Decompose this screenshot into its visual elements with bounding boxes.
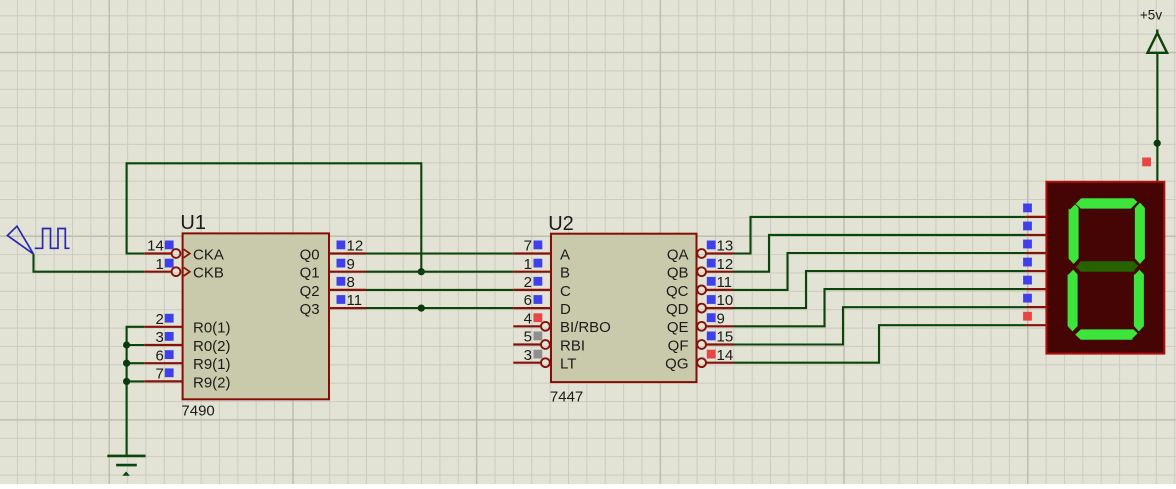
svg-text:U2: U2 [548,213,574,235]
state square U2 pin 15 state [707,332,716,341]
svg-text:QD: QD [666,301,689,318]
state square U1 pin 14 state [165,241,174,250]
state square display pin 7 state [1023,312,1032,321]
svg-text:9: 9 [347,256,355,273]
pin stub display segment pin 1 [1026,216,1047,218]
state square U2 pin 4 state [534,313,543,322]
inversion bubble U2 QD [697,304,706,313]
segment G middle (off) [1075,261,1139,271]
pin stub display segment pin 3 [1026,252,1047,254]
segment gap notches [1066,198,1146,340]
pin stub display segment pin 7 [1026,324,1047,326]
pin stub U1 pin 12 Q0 [329,252,366,254]
inversion bubble U2 QE [697,322,706,331]
wire U2 QF to display [734,307,1026,344]
clock generator symbol [7,226,69,254]
wire U2 QE to display [734,289,1026,326]
state square display pin 5 state [1023,276,1032,285]
svg-text:9: 9 [717,310,725,327]
svg-text:LT: LT [560,356,576,373]
junction R0(2) tee [123,341,130,348]
state square display pin 2 state [1023,222,1032,231]
inversion bubble U2 QG [697,358,706,367]
state square U2 pin 7 state [534,241,543,250]
ground symbol [107,456,145,475]
state square U2 pin 5 state [534,332,543,341]
wire U2 QC to display [734,253,1026,290]
state square U1 pin 11 state [337,295,346,304]
pin stub display segment pin 4 [1026,270,1047,272]
state square display common state [1142,158,1151,167]
inversion bubble U2 QF [697,340,706,349]
pin stub U1 pin 14 CKA [144,252,171,254]
svg-text:Q2: Q2 [300,283,320,300]
pin stub U2 pin 15 QF [706,343,733,345]
svg-text:15: 15 [717,329,734,346]
svg-text:7: 7 [155,366,163,383]
segment E bottom-left (on) [1068,269,1078,332]
svg-text:14: 14 [147,238,164,255]
wire +5v rail to display common [1156,53,1158,182]
pin stub U1 pin 11 Q3 [329,307,366,309]
state square U2 pin 1 state [534,259,543,268]
pin stub U1 pin 7 R9(2) [144,380,182,382]
IC U1 7490 body [183,233,329,399]
state square U1 pin 8 state [337,277,346,286]
wire U2 QD to display [734,271,1026,308]
svg-text:2: 2 [524,274,532,291]
svg-text:7447: 7447 [550,389,583,406]
segment B top-right (on) [1135,203,1145,265]
svg-text:CKB: CKB [193,265,224,282]
wire U1 Q0 to U2 A [366,252,513,254]
clock marker U1 CKA [184,249,190,258]
inversion bubble U1 CKA [172,249,181,258]
state square U1 pin 9 state [337,259,346,268]
pin stub U2 pin 4 BI/RBO [513,325,541,327]
segment D bottom (on) [1075,329,1139,339]
svg-text:U1: U1 [180,212,206,234]
state square U2 pin 6 state [534,295,543,304]
svg-text:12: 12 [717,256,734,273]
7-segment display DS body [1046,182,1164,354]
state square U1 pin 1 state [165,259,174,268]
pin stub U1 pin 3 R0(2) [144,344,182,346]
inversion bubble U2 QB [697,267,706,276]
junction dot on Q3 net [418,305,425,312]
svg-text:7490: 7490 [181,402,214,419]
state square U1 pin 3 state [165,332,174,341]
state square display pin 1 state [1023,204,1032,213]
wire U1 Q2 to U2 C [366,289,513,291]
svg-text:4: 4 [524,310,532,327]
state square U2 pin 9 state [707,313,716,322]
svg-text:B: B [560,265,570,282]
svg-text:6: 6 [155,347,163,364]
svg-text:QC: QC [666,283,689,300]
wire reset harness vertical [127,327,145,456]
state square U2 pin 12 state [707,259,716,268]
pin stub U1 pin 8 Q2 [329,289,366,291]
svg-text:3: 3 [524,347,532,364]
svg-text:Q0: Q0 [300,246,320,263]
inversion bubble U2 QC [697,286,706,295]
svg-text:11: 11 [347,292,363,309]
pin stub U2 pin 14 QG [706,362,733,364]
svg-text:13: 13 [717,238,734,255]
junction feedback joins Q1 net [418,268,425,275]
svg-text:8: 8 [347,274,355,291]
pin stub U2 pin 13 QA [706,252,733,254]
svg-text:QF: QF [668,337,689,354]
state square U1 pin 6 state [165,350,174,359]
junction R9(2) tee [123,378,130,385]
svg-text:12: 12 [347,238,364,255]
svg-text:1: 1 [524,256,532,273]
svg-text:QB: QB [667,265,689,282]
segment F top-left (on) [1069,203,1079,265]
svg-text:3: 3 [155,329,163,346]
wire U2 QB to display [734,235,1026,272]
svg-text:14: 14 [717,347,734,364]
pin stub U2 pin 9 QE [706,325,733,327]
svg-text:R9(2): R9(2) [193,374,231,391]
inversion bubble U1 CKB [172,267,181,276]
state square U1 pin 12 state [337,241,346,250]
svg-text:CKA: CKA [193,246,224,263]
pin stub U1 pin 1 CKB [144,271,171,273]
wire to R0(2) [127,344,145,346]
svg-text:7: 7 [524,238,532,255]
state square U1 pin 7 state [165,368,174,377]
inversion bubble U2 QA [697,249,706,258]
pin stub U2 pin 1 B [513,271,551,273]
svg-text:Q3: Q3 [300,301,320,318]
pin stub display segment pin 6 [1026,306,1047,308]
svg-text:QA: QA [667,246,689,263]
pin stub U1 pin 9 Q1 [329,271,366,273]
clock marker U1 CKB [184,267,190,276]
pin stub U2 pin 12 QB [706,271,733,273]
inversion bubble U2 BI/RBO [541,322,550,331]
pin stub display segment pin 5 [1026,288,1047,290]
power symbol +5v [1148,33,1168,53]
state square U2 pin 14 state [707,350,716,359]
state square U2 pin 10 state [707,295,716,304]
IC U2 7447 body [551,234,697,382]
segment C bottom-right (on) [1134,269,1144,332]
wire to R9(2) [127,380,145,382]
svg-text:D: D [560,301,571,318]
pin stub display segment pin 2 [1026,234,1047,236]
state square U1 pin 2 state [165,314,174,323]
state square display pin 6 state [1023,294,1032,303]
state square U2 pin 2 state [534,277,543,286]
svg-text:6: 6 [524,292,532,309]
pin stub U2 pin 10 QD [706,307,733,309]
wire Q1 feedback to CKA [127,163,422,271]
svg-text:2: 2 [155,311,163,328]
wire U1 Q3 to U2 D [366,307,513,309]
pin stub U2 pin 5 RBI [513,343,541,345]
svg-text:BI/RBO: BI/RBO [560,319,611,336]
pin stub U2 pin 3 LT [513,362,541,364]
state square U2 pin 13 state [707,241,716,250]
svg-text:5: 5 [524,329,532,346]
pin stub U2 pin 11 QC [706,289,733,291]
pin stub U1 pin 2 R0(1) [144,326,182,328]
svg-text:Q1: Q1 [300,265,320,282]
segment A top (on) [1075,198,1139,208]
state square display pin 4 state [1023,258,1032,267]
wire U1 Q1 to U2 B [366,271,513,273]
junction on +5v rail [1154,140,1161,147]
wire clock to U1 CKB [34,254,145,272]
wire U2 QG to display [734,325,1026,363]
wire to R9(1) [127,362,145,364]
wire U2 QA to display [734,217,1026,254]
svg-text:R0(2): R0(2) [193,338,231,355]
svg-text:A: A [560,246,570,263]
svg-text:11: 11 [717,274,733,291]
svg-text:R9(1): R9(1) [193,356,231,373]
svg-text:1: 1 [155,256,163,273]
svg-text:QG: QG [665,356,688,373]
svg-text:RBI: RBI [560,337,585,354]
svg-text:+5v: +5v [1140,8,1162,23]
svg-text:R0(1): R0(1) [193,320,231,337]
junction R9(1) tee [123,360,130,367]
state square U2 pin 3 state [534,350,543,359]
state square display pin 3 state [1023,240,1032,249]
svg-text:QE: QE [667,319,689,336]
pin stub U2 pin 2 C [513,289,551,291]
svg-text:C: C [560,283,571,300]
pin stub U1 pin 6 R9(1) [144,362,182,364]
svg-text:10: 10 [717,292,734,309]
state square U2 pin 11 state [707,277,716,286]
inversion bubble U2 LT [541,358,550,367]
inversion bubble U2 RBI [541,340,550,349]
pin stub U2 pin 6 D [513,307,551,309]
pin stub U2 pin 7 A [513,252,551,254]
